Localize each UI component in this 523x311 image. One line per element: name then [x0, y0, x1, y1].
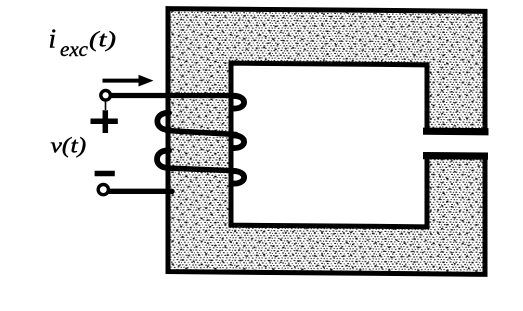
- label v(t): [51, 133, 87, 158]
- magnetic core (stippled C-core): [168, 9, 485, 275]
- air gap opening (white slot in right limb): [420, 133, 505, 153]
- svg-text:v(t): v(t): [51, 133, 87, 158]
- svg-text:i: i: [49, 24, 57, 54]
- top terminal: [101, 91, 111, 101]
- core speckle overlay: [168, 9, 485, 275]
- current arrow: [103, 79, 141, 83]
- air gap upper pole face: [423, 128, 489, 136]
- coil turn 1 right loop: [233, 96, 245, 109]
- bottom lead wire: [109, 189, 172, 194]
- coil turn 2 right loop: [233, 135, 245, 148]
- bottom terminal: [98, 185, 108, 195]
- coil turn 3 right loop: [233, 171, 245, 183]
- terminal stem tick: [105, 101, 107, 110]
- svg-text:exc: exc: [60, 37, 89, 61]
- coil turn 3 left loop: [157, 150, 169, 167]
- minus sign: [95, 171, 115, 177]
- coil turn 1 front wire (top lead across leg): [110, 93, 236, 98]
- coil turn 3 front wire: [167, 168, 237, 171]
- svg-text:(t): (t): [89, 27, 116, 52]
- coil turn 2 left loop: [157, 113, 169, 130]
- plus sign: [91, 110, 118, 133]
- coil turn 2 front wire: [167, 131, 237, 135]
- air gap lower pole face: [423, 152, 488, 160]
